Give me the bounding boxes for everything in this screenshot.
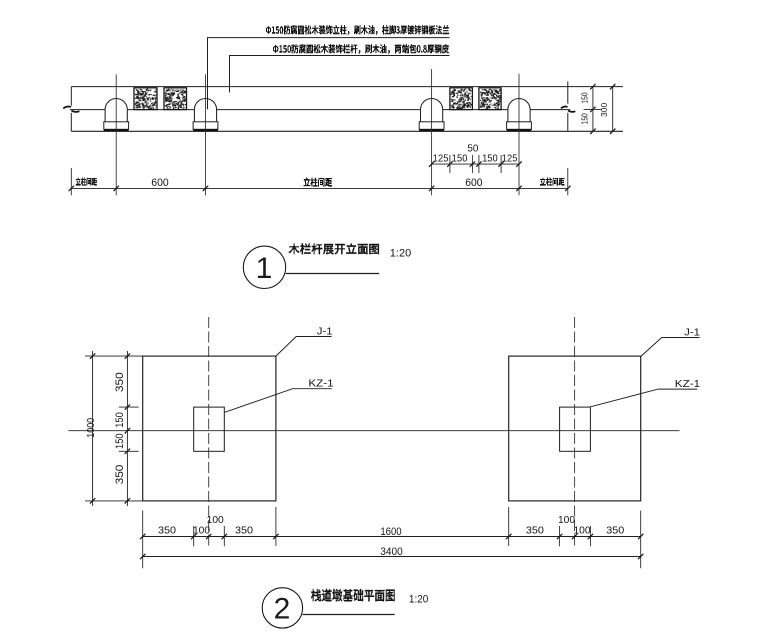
ticks right dims xyxy=(590,84,615,134)
svg-text:100: 100 xyxy=(193,526,210,537)
hatched infill block B4 xyxy=(479,88,501,110)
centerline of post U3 xyxy=(431,69,433,195)
ticks main dim xyxy=(69,186,571,191)
horizontal axis line xyxy=(69,430,680,432)
svg-text:J-1: J-1 xyxy=(684,327,700,338)
extension right xyxy=(567,168,569,195)
leader J-1 right xyxy=(641,338,700,357)
dim label spacing right xyxy=(540,178,565,186)
svg-text:350: 350 xyxy=(114,464,126,484)
post U3 with dome cap and base plate xyxy=(419,99,444,132)
svg-text:300: 300 xyxy=(599,103,609,117)
extension kz right x590 xyxy=(589,526,591,546)
extension bottom xyxy=(85,500,143,502)
title circle 1 xyxy=(243,246,285,288)
svg-text:150: 150 xyxy=(114,412,126,428)
extension top xyxy=(85,355,143,357)
ticks 1000 xyxy=(90,353,95,503)
dimension line 300 xyxy=(612,87,614,132)
svg-text:150: 150 xyxy=(452,154,468,165)
sub-dimension line xyxy=(432,163,519,165)
column KZ-1 left outline xyxy=(194,407,225,451)
svg-text:350: 350 xyxy=(606,526,624,537)
svg-text:125: 125 xyxy=(433,154,449,165)
dim label spacing left xyxy=(76,178,97,186)
svg-text:350: 350 xyxy=(158,526,176,537)
extension kz right x559 xyxy=(559,526,561,546)
bottom overall dimension line xyxy=(143,556,641,558)
extension left xyxy=(70,168,72,195)
extension kz left x193 xyxy=(193,526,195,546)
wire middle rail line xyxy=(70,109,570,111)
column KZ-1 right outline xyxy=(560,407,591,451)
extension stub kz top xyxy=(119,406,139,408)
break mark right xyxy=(561,107,575,112)
note text 2 xyxy=(273,44,449,53)
hatched infill block B3 xyxy=(450,88,473,110)
title circle 2 xyxy=(262,588,302,628)
svg-text:600: 600 xyxy=(151,177,168,189)
dimension line 1000 xyxy=(92,351,94,506)
leader J-1 left xyxy=(276,337,332,357)
svg-text:KZ-1: KZ-1 xyxy=(308,378,334,389)
break mark left xyxy=(63,106,79,111)
post U2 with dome cap and base plate xyxy=(193,99,218,132)
ticks bottom chain xyxy=(140,534,643,539)
svg-text:100: 100 xyxy=(207,515,224,526)
wire bottom deck line xyxy=(71,130,623,132)
svg-text:50: 50 xyxy=(467,143,478,154)
svg-text:150: 150 xyxy=(114,433,126,449)
extension stub x501 xyxy=(500,155,502,173)
centerline of post U1 xyxy=(115,74,117,195)
svg-text:2: 2 xyxy=(274,593,291,626)
extension stub x472 xyxy=(471,155,473,173)
svg-text:150: 150 xyxy=(579,92,589,103)
title rule 1 xyxy=(286,273,380,275)
hatched infill block B1 xyxy=(134,88,157,110)
leader line note 1 xyxy=(208,38,450,110)
wire top rail line xyxy=(71,86,623,88)
svg-text:125: 125 xyxy=(502,154,518,165)
leader KZ-1 right xyxy=(590,389,697,407)
centerline of post U2 xyxy=(205,74,207,195)
vertical centerline left xyxy=(208,317,210,546)
leader line note 2 xyxy=(230,56,450,93)
svg-text:100: 100 xyxy=(573,526,590,537)
title text 2 xyxy=(311,589,395,601)
footing J-1 left outline xyxy=(143,356,276,501)
svg-text:600: 600 xyxy=(465,177,482,189)
extension stub mid-right xyxy=(584,108,602,110)
title text 1 xyxy=(289,244,380,255)
svg-text:150: 150 xyxy=(482,154,498,165)
svg-text:KZ-1: KZ-1 xyxy=(675,379,701,390)
extension bl xyxy=(142,511,144,569)
main dimension line xyxy=(71,187,568,189)
svg-text:1:20: 1:20 xyxy=(409,594,429,606)
svg-text:150: 150 xyxy=(579,113,589,124)
svg-text:J-1: J-1 xyxy=(317,327,333,338)
dimension line 150/150 xyxy=(592,87,594,132)
svg-text:350: 350 xyxy=(526,526,544,537)
leader KZ-1 left xyxy=(224,389,331,413)
wire left boundary xyxy=(70,87,72,132)
title rule 2 xyxy=(303,614,395,616)
note text 1 xyxy=(266,25,449,34)
dimension line 350/150/150/350 xyxy=(126,351,128,506)
extension br xyxy=(640,511,642,569)
extension kz left x224 xyxy=(223,526,225,546)
svg-text:100: 100 xyxy=(558,515,575,526)
svg-text:1600: 1600 xyxy=(380,526,401,538)
post U1 with dome cap and base plate xyxy=(104,99,129,132)
post U4 with dome cap and base plate xyxy=(507,99,532,132)
ticks sub-dim xyxy=(429,161,522,166)
svg-text:3400: 3400 xyxy=(380,546,402,558)
svg-text:1000: 1000 xyxy=(86,418,97,438)
vertical centerline right xyxy=(574,317,576,546)
svg-text:350: 350 xyxy=(114,372,126,392)
extension stub x478 xyxy=(478,155,480,173)
extension inner left xyxy=(275,507,277,546)
wire right boundary xyxy=(567,82,569,132)
extension inner right xyxy=(508,507,510,546)
svg-text:1: 1 xyxy=(256,252,273,285)
bottom dimension chain line xyxy=(143,536,641,538)
svg-text:350: 350 xyxy=(235,526,253,537)
centerline of post U4 xyxy=(518,74,520,196)
dim label spacing mid xyxy=(304,178,333,187)
ticks left chain xyxy=(125,353,130,503)
footing J-1 right outline xyxy=(509,356,641,501)
extension stub x449 xyxy=(449,155,451,173)
svg-text:1:20: 1:20 xyxy=(390,247,411,259)
hatched infill block B2 xyxy=(164,88,187,110)
ticks overall xyxy=(140,554,643,559)
extension stub kz bottom xyxy=(119,450,139,452)
